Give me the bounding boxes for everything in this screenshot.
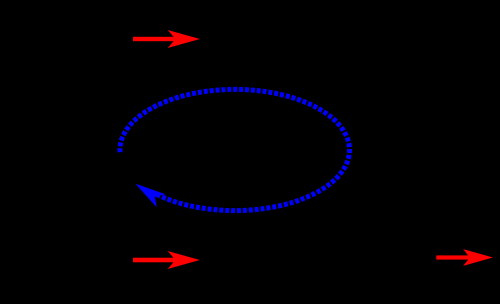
blue cycle arrowhead xyxy=(131,177,166,207)
blue dotted cycle ellipse xyxy=(120,89,350,210)
bottom-right red reaction arrow xyxy=(436,249,493,266)
top red reaction arrow xyxy=(133,30,200,48)
bottom-left red reaction arrow xyxy=(133,251,200,269)
